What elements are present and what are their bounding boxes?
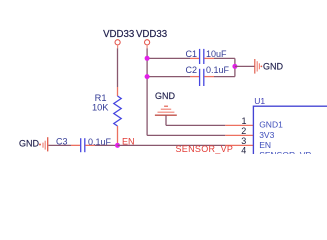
svg-text:GND1: GND1 bbox=[259, 120, 283, 130]
wire VDD33 right vertical down to pin2 bend bbox=[146, 45, 148, 48]
junction EN node bbox=[115, 143, 120, 148]
pin 2 bbox=[225, 134, 253, 136]
svg-text:VDD33: VDD33 bbox=[136, 29, 167, 40]
wire EN to U1 pin3 bbox=[118, 144, 226, 146]
power port VDD33 (right) bbox=[136, 29, 167, 45]
wire C3 to EN junction bbox=[95, 144, 118, 146]
svg-text:4: 4 bbox=[241, 146, 246, 154]
svg-text:VDD33: VDD33 bbox=[103, 29, 134, 40]
power port VDD33 (left) bbox=[103, 29, 134, 45]
junction caps to GND bbox=[232, 64, 237, 69]
svg-text:EN: EN bbox=[259, 140, 271, 150]
wire GND stub down bbox=[165, 115, 167, 125]
junction at VDD33/C1 bbox=[145, 56, 150, 61]
ground GND (right, rotated) bbox=[255, 59, 284, 74]
capacitor C2 bbox=[190, 69, 214, 86]
svg-text:C2: C2 bbox=[186, 65, 198, 75]
pin 3 bbox=[225, 144, 253, 146]
svg-text:10uF: 10uF bbox=[206, 49, 227, 59]
svg-text:GND: GND bbox=[155, 91, 176, 101]
svg-text:C1: C1 bbox=[186, 49, 198, 59]
wire junction to GND symbol bbox=[235, 65, 255, 67]
wire C2 row right bbox=[214, 76, 235, 78]
svg-text:GND: GND bbox=[263, 62, 284, 72]
svg-text:SENSOR_VP: SENSOR_VP bbox=[176, 144, 234, 154]
wire C1 row left bbox=[147, 57, 190, 59]
wire C2 row left bbox=[147, 76, 190, 78]
svg-text:0.1uF: 0.1uF bbox=[206, 65, 230, 75]
svg-text:10K: 10K bbox=[92, 102, 109, 112]
wire caps join vertical bbox=[234, 58, 236, 76]
svg-text:SENSOR_VP: SENSOR_VP bbox=[259, 150, 311, 154]
svg-text:3V3: 3V3 bbox=[259, 130, 274, 140]
ground GND (middle, inverted) bbox=[155, 91, 177, 115]
IC U1 box bbox=[253, 106, 327, 166]
ground GND (left, rotated) bbox=[19, 137, 48, 151]
svg-text:GND: GND bbox=[19, 138, 40, 148]
resistor R1 bbox=[114, 87, 121, 144]
wire GND to U1 pin1 bbox=[166, 124, 225, 126]
capacitor C1 bbox=[190, 49, 214, 64]
capacitor C3 bbox=[71, 138, 95, 152]
svg-text:C3: C3 bbox=[56, 137, 68, 147]
svg-text:2: 2 bbox=[241, 126, 246, 136]
svg-text:U1: U1 bbox=[254, 96, 265, 106]
wire VDD33 to U1 pin2 bbox=[147, 134, 225, 136]
wire GND to C3 bbox=[48, 144, 71, 146]
junction at VDD33/C2 bbox=[145, 74, 150, 79]
wire C1 row right bbox=[214, 57, 235, 59]
wire VDD33 left to R1 top bbox=[117, 45, 119, 48]
svg-text:1: 1 bbox=[241, 116, 246, 126]
pin 1 bbox=[225, 124, 253, 126]
